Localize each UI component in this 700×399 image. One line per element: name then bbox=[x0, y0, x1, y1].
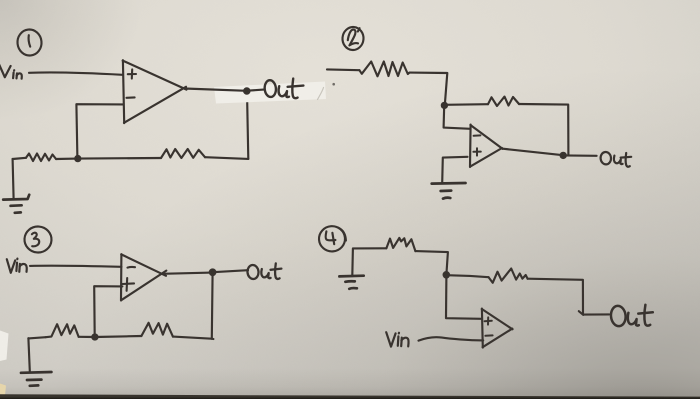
wire U1 output bbox=[185, 89, 247, 91]
circled label 2 bbox=[342, 26, 365, 51]
resistor R6 feedback bbox=[141, 323, 173, 337]
wire R7 to node D bbox=[415, 251, 448, 274]
wire R4 to feedback corner down to output bbox=[519, 104, 568, 155]
wire ground corner to resistor R5 bbox=[28, 337, 45, 338]
wire node D to resistor R8 bbox=[447, 275, 489, 277]
wire bottom-left corner to ground (circuit 3) bbox=[28, 338, 29, 371]
circled label 4 bbox=[318, 225, 346, 252]
resistor R7 bbox=[386, 238, 415, 251]
op-amp U1 bbox=[123, 60, 187, 123]
node A junction dot bbox=[75, 156, 80, 161]
wire corner down to ground (circuit 4) bbox=[351, 249, 354, 277]
resistor R3 bbox=[359, 62, 409, 77]
minus sign U1 bbox=[127, 96, 135, 99]
resistor R2 feedback bbox=[161, 149, 205, 158]
wire R5 to node C bbox=[79, 336, 95, 338]
wire U1 inverting input down to node A bbox=[76, 104, 122, 158]
minus sign U3 bbox=[128, 266, 136, 269]
node B junction dot bbox=[442, 103, 447, 108]
circled label 3 bbox=[24, 226, 53, 254]
white paper scrap on left edge bbox=[0, 331, 9, 362]
resistor R5 bbox=[46, 324, 79, 337]
wire output node to Out label bbox=[249, 90, 264, 91]
wire U2 output bbox=[502, 149, 563, 156]
wire node C to resistor R6 bbox=[95, 336, 141, 337]
ground (circuit 2) bbox=[432, 183, 466, 199]
resistor R4 feedback bbox=[488, 97, 519, 106]
wire node B to U2 inverting input bbox=[444, 105, 471, 128]
ground (circuit 1) bbox=[3, 195, 29, 213]
wire output node to Out label (circuit 3) bbox=[213, 270, 248, 272]
small tick at Out corner bbox=[579, 311, 583, 315]
wire feedback vertical to output node bbox=[247, 92, 248, 159]
white-out tape patch bbox=[214, 82, 326, 104]
wire R1 to node A bbox=[56, 158, 78, 161]
plus sign U2 bbox=[473, 148, 480, 155]
wire R2 to feedback corner bbox=[205, 157, 248, 159]
minus sign U2 bbox=[474, 134, 481, 136]
ground (circuit 4) bbox=[339, 276, 363, 289]
resistor R1 bbox=[26, 154, 56, 162]
plus sign U4 bbox=[485, 317, 492, 324]
label Vin (circuit 1) bbox=[0, 62, 22, 79]
wire ground leg to resistor R1 bbox=[13, 158, 26, 159]
wire R3 to node B bbox=[410, 73, 448, 105]
wire node D down to U4 noninverting input bbox=[446, 275, 482, 319]
label Vin (circuit 4) bbox=[386, 332, 408, 346]
wire output node to Out label (circuit 2) bbox=[563, 154, 596, 157]
label Out (circuit 2) bbox=[600, 152, 631, 167]
plus sign U1 bbox=[128, 69, 136, 78]
plus sign U3 bbox=[122, 278, 134, 291]
label Out (circuit 1) bbox=[264, 79, 303, 99]
label Out (circuit 4) bbox=[610, 305, 653, 327]
wire input to resistor R3 bbox=[327, 68, 359, 71]
op-amp U3 bbox=[121, 254, 166, 300]
wire U3 noninverting input down to node C bbox=[94, 286, 122, 336]
circled label 1 bbox=[16, 28, 43, 56]
output node dot (circuit 1) bbox=[244, 88, 249, 93]
ground (circuit 3) bbox=[21, 372, 51, 386]
table edge dark strip bbox=[0, 394, 700, 399]
cream sliver bottom-left corner bbox=[0, 384, 6, 397]
op-amp U4 bbox=[482, 309, 513, 348]
wire node A to resistor R2 bbox=[78, 157, 161, 160]
wire U3 output bbox=[162, 273, 213, 274]
wire R6 to feedback corner bbox=[173, 337, 214, 339]
output node dot (circuit 3) bbox=[210, 269, 216, 275]
wire Vin to U3 inverting input bbox=[30, 266, 121, 267]
minus sign U4 bbox=[485, 334, 492, 336]
resistor R8 bbox=[489, 269, 528, 283]
wire feedback vertical to output node (circuit 3) bbox=[211, 272, 214, 338]
wire U2 noninverting input to ground bbox=[442, 157, 467, 183]
wire corner to Out label (circuit 4) bbox=[583, 313, 609, 315]
wire Vin to U1 noninverting input bbox=[29, 72, 123, 74]
op-amp U2 bbox=[470, 125, 503, 167]
output node dot (circuit 2) bbox=[561, 153, 566, 158]
wire Vin to U4 inverting input (wavy) bbox=[419, 337, 484, 340]
stray ink dot right of tape bbox=[332, 83, 335, 86]
wire top-left corner to resistor R7 bbox=[353, 247, 386, 249]
wire R8 to Out corner (circuit 4) bbox=[528, 279, 583, 315]
node C junction dot bbox=[92, 334, 97, 339]
wire node A ground drop bbox=[13, 159, 14, 199]
label Vin (circuit 3) bbox=[7, 259, 27, 273]
label Out (circuit 3) bbox=[247, 263, 281, 279]
node D junction dot bbox=[444, 272, 449, 277]
wire node B to resistor R4 bbox=[445, 103, 488, 106]
